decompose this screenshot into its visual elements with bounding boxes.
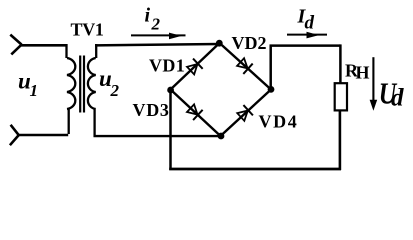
svg-text:VD2: VD2: [232, 33, 267, 53]
transformer core: [80, 56, 84, 113]
wire load bottom lead: [339, 110, 342, 170]
svg-text:2: 2: [151, 15, 161, 34]
bottom rail: [169, 168, 341, 171]
svg-text:d: d: [391, 85, 404, 112]
diode VD1: [186, 59, 203, 76]
svg-text:i: i: [145, 4, 151, 26]
wire right node up: [269, 46, 272, 90]
node left: [167, 87, 174, 94]
svg-text:VD1: VD1: [149, 56, 185, 76]
svg-text:1: 1: [30, 81, 39, 100]
wire left node down to rail: [169, 90, 172, 170]
svg-text:H: H: [356, 63, 370, 83]
transformer TV1 secondary winding: [88, 44, 96, 137]
current arrow Id: [287, 34, 327, 36]
node top: [216, 40, 223, 47]
svg-text:2: 2: [110, 81, 120, 100]
wire secondary top to bridge: [95, 44, 220, 45]
wire secondary bottom to bridge bottom node: [94, 135, 222, 137]
node bottom: [218, 133, 225, 140]
svg-text:VD3: VD3: [133, 100, 170, 120]
node right: [268, 86, 275, 93]
current arrow i2: [131, 34, 186, 36]
svg-text:VD4: VD4: [259, 111, 299, 131]
diode VD3: [186, 103, 203, 120]
svg-text:d: d: [305, 12, 315, 33]
svg-text:TV1: TV1: [71, 20, 104, 40]
resistor RH: [335, 83, 347, 110]
diode VD4: [236, 105, 253, 122]
wire top-left horizontal: [21, 44, 67, 47]
diode VD2: [236, 57, 253, 74]
transformer TV1 primary winding: [67, 44, 76, 134]
terminal input top-left: [10, 35, 21, 55]
wire bottom-left horizontal: [18, 134, 68, 137]
voltage arrow Ud: [372, 57, 374, 103]
wire load top lead: [339, 44, 342, 83]
wire top right to load: [270, 44, 341, 47]
terminal input bottom-left: [10, 125, 19, 145]
diode bridge edges: [171, 43, 272, 136]
